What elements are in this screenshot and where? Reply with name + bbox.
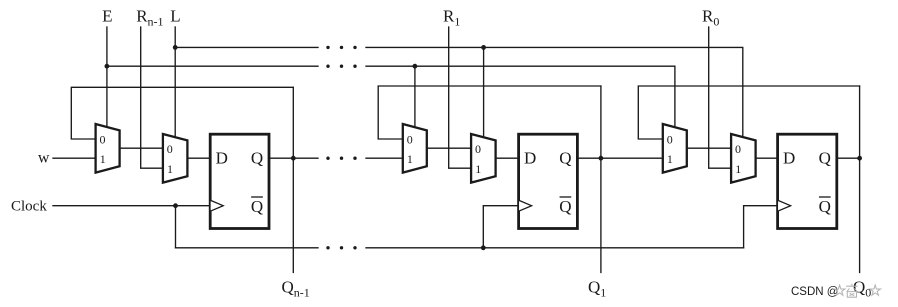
wire clock drop to bus [175,206,177,248]
wire mux-to-D stage n-1 [187,157,208,159]
mux load stage 0 [731,134,756,183]
wire E input stub [106,27,108,66]
svg-text:1: 1 [167,162,173,176]
wire R1 vertical [449,27,471,168]
svg-text:0: 0 [475,142,481,156]
junction E tap stage 1 [413,64,418,69]
wire chain gap to stage 1 mux [366,157,403,159]
svg-text:Q: Q [251,149,263,168]
watermark CSDN [791,284,881,298]
svg-text:D: D [216,149,228,168]
svg-text:1: 1 [735,162,741,176]
svg-text:1: 1 [100,152,106,166]
wire mux-to-D stage 0 [756,157,777,159]
svg-text:0: 0 [167,142,173,156]
svg-text:D: D [524,149,536,168]
wire mux-to-mux stage 1 [427,147,471,149]
svg-text:L: L [170,6,180,25]
wire clock input [53,205,209,207]
junction E tap stage n-1 [105,64,110,69]
svg-text:w: w [38,149,50,166]
svg-text:1: 1 [407,152,413,166]
svg-text:0: 0 [407,132,413,146]
svg-text:Q: Q [819,149,831,168]
wire w input [53,157,96,159]
svg-text:CSDN @: CSDN @ [791,286,838,298]
wire feedback loop Q1 to mux 0-input [378,86,601,139]
wire clock bus left segment [176,247,319,249]
wire E select drop stage 1 [414,66,416,127]
wire Q1 vertical [600,86,602,272]
wire Q output stage 1 [579,157,601,159]
mux enable stage n-1 [96,124,120,173]
wire Qn-1 vertical [292,87,294,272]
wire R0 vertical [709,27,731,168]
junction L tap stage 1 [481,45,486,50]
wire mux-to-D stage 1 [496,157,518,159]
mux load stage 1 [471,134,496,183]
wire L bus left segment [175,46,318,48]
svg-text:Q: Q [819,197,831,216]
wire L select drop stage n-1 [174,47,176,137]
mux enable stage 0 [663,124,687,173]
wire feedback loop Qn-1 to mux 0-input [71,87,293,139]
svg-text:Q: Q [559,197,571,216]
ellipsis dots on shift chain [326,157,356,160]
wire Q0 vertical [859,86,861,272]
svg-text:1: 1 [667,152,673,166]
svg-text:D: D [783,149,795,168]
flip-flop stage n-1 [210,134,269,228]
wire feedback loop Q0 to mux 0-input [638,86,859,139]
svg-text:Clock: Clock [11,199,47,215]
svg-text:1: 1 [475,162,481,176]
junction Qn-1 [291,156,296,161]
junction clock tap stage 1 [481,245,486,250]
wire clock riser stage 1 [483,206,517,248]
flip-flop stage 0 [777,134,836,228]
wire Q output stage n-1 [270,157,293,159]
junction L tap stage n-1 [173,45,178,50]
wire Rn-1 vertical [141,27,163,168]
ellipsis dots on E bus [326,65,356,68]
svg-text:Q: Q [251,197,263,216]
wire clock riser stage 0 [744,206,777,248]
svg-text:0: 0 [667,132,673,146]
mux enable stage 1 [403,124,427,173]
svg-text:E: E [102,6,112,25]
wire E bus right segment with bend into mux select [366,66,675,127]
wire chain Q1 to stage 0 mux [601,157,663,159]
flip-flop stage 1 [518,134,577,228]
svg-text:0: 0 [100,132,106,146]
wire E bus left segment [107,65,318,67]
wire L bus right segment with bend into mux select [366,47,743,137]
wire L input stub [174,27,176,47]
junction Q1 [599,156,604,161]
wire L select drop stage 1 [483,47,485,137]
wire clock bus right segment [366,247,744,249]
svg-text:Q: Q [559,149,571,168]
wire chain Qn-1 to gap [293,157,318,159]
wire mux-to-mux stage 0 [687,147,731,149]
wire mux-to-mux stage n-1 [120,147,163,149]
junction clock branch [173,203,178,208]
ellipsis dots on L bus [326,46,356,49]
wire Q output stage 0 [838,157,859,159]
junction Q0 [857,156,862,161]
mux load stage n-1 [163,134,188,183]
ellipsis dots on clock bus [326,246,356,249]
svg-text:0: 0 [735,142,741,156]
wire E select drop stage n-1 [106,66,108,127]
